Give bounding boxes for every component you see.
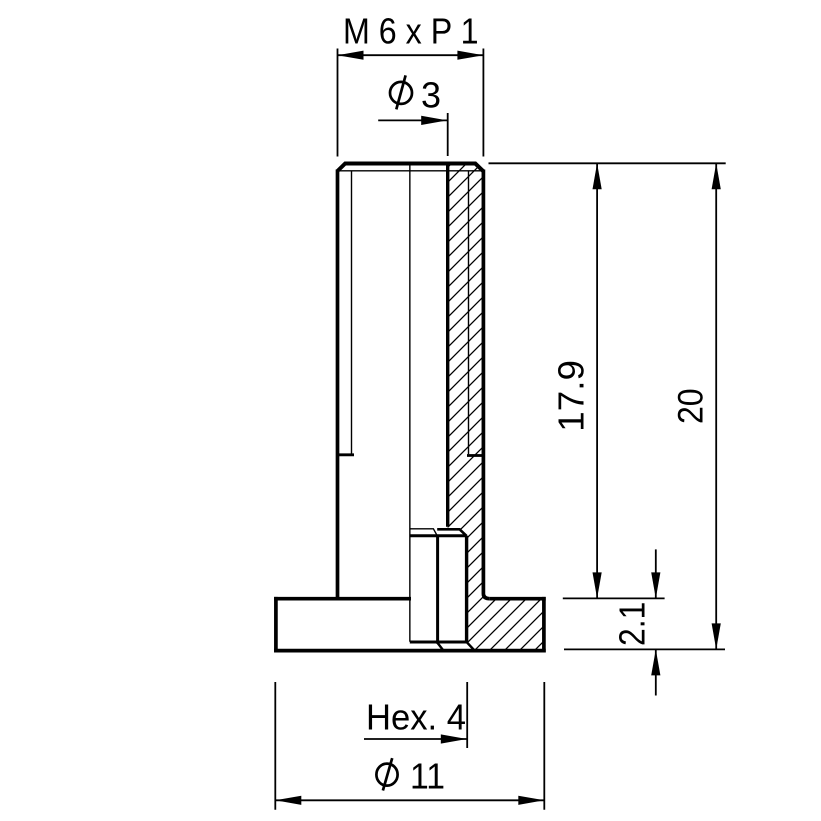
flange top edge left segment xyxy=(274,597,411,601)
socket bottom chamfer diagonal middle xyxy=(438,643,444,651)
flange top edge right segment xyxy=(490,597,546,601)
svg-text:20: 20 xyxy=(671,388,710,424)
phi3 hole wall (thick) xyxy=(446,164,449,527)
dim 20: dimension line xyxy=(715,163,717,649)
dim phi3: dimension line xyxy=(378,119,447,121)
thread end tick right xyxy=(467,454,483,457)
flange right edge xyxy=(542,597,546,653)
flange left edge xyxy=(274,597,278,653)
right top extension line xyxy=(489,162,726,164)
dim M6: arrow left xyxy=(338,51,364,60)
dim M6: extension line left xyxy=(337,49,339,157)
dim Hex4: extension line xyxy=(466,682,468,748)
dim Hex4: dimension line xyxy=(364,738,467,740)
hex socket top thin chamfer line xyxy=(410,529,437,536)
dim 20: arrow down xyxy=(712,623,721,649)
dim phi11: extension line right xyxy=(543,682,545,810)
thread root line left (thin) xyxy=(351,171,353,454)
dim 17.9: dimension line xyxy=(596,163,598,598)
dim 20: arrow up xyxy=(712,163,721,189)
dim phi11: arrow right xyxy=(518,796,544,805)
dim M6: dimension line xyxy=(338,54,484,56)
hex socket bottom chamfer edge xyxy=(410,641,467,644)
hex socket top thick chamfer line xyxy=(437,529,466,536)
body left edge xyxy=(336,170,340,599)
dim M6: arrow right xyxy=(457,51,483,60)
hex socket right wall xyxy=(465,536,468,643)
hex socket top edge (thick) xyxy=(410,534,467,537)
svg-text:Hex. 4: Hex. 4 xyxy=(366,697,466,738)
hatched section area (wall + flange, right half section) xyxy=(448,164,544,651)
thread root line right (thin) xyxy=(468,171,470,454)
dim M6: extension line right xyxy=(482,49,484,157)
dim 17.9: arrow up xyxy=(593,163,602,189)
thread end tick left xyxy=(338,453,355,456)
centerline (thin solid) xyxy=(409,164,411,642)
svg-text:M 6 x P 1: M 6 x P 1 xyxy=(343,10,479,51)
svg-text:11: 11 xyxy=(410,756,445,797)
svg-text:17.9: 17.9 xyxy=(550,360,591,432)
body right edge with fillet into flange top xyxy=(483,170,489,599)
body top chamfer thin line xyxy=(340,170,482,172)
svg-text:3: 3 xyxy=(421,74,441,115)
dim phi3: extension line xyxy=(447,113,449,156)
svg-text:2.1: 2.1 xyxy=(612,602,653,646)
dim phi11: dimension line xyxy=(275,799,544,801)
dim phi3: arrow xyxy=(421,116,447,125)
dim 2.1: lower line + arrow xyxy=(655,649,657,695)
body top edge with chamfers xyxy=(338,164,484,172)
hex socket far-corner line xyxy=(436,536,439,644)
right mid extension line (flange top) xyxy=(563,597,665,599)
flange bottom edge xyxy=(274,649,546,653)
dim phi3: diameter symbol xyxy=(390,75,412,109)
dim 2.1: upper line + arrow xyxy=(655,549,657,598)
dim phi11: diameter symbol xyxy=(376,758,397,790)
dim phi11: extension line left xyxy=(274,682,276,810)
right bottom extension line (flange bottom) xyxy=(564,648,725,650)
dim phi11: arrow left xyxy=(275,796,301,805)
dim 17.9: arrow down xyxy=(593,572,602,598)
socket bottom chamfer diagonal right xyxy=(467,642,475,651)
dim Hex4: arrow xyxy=(441,734,467,743)
